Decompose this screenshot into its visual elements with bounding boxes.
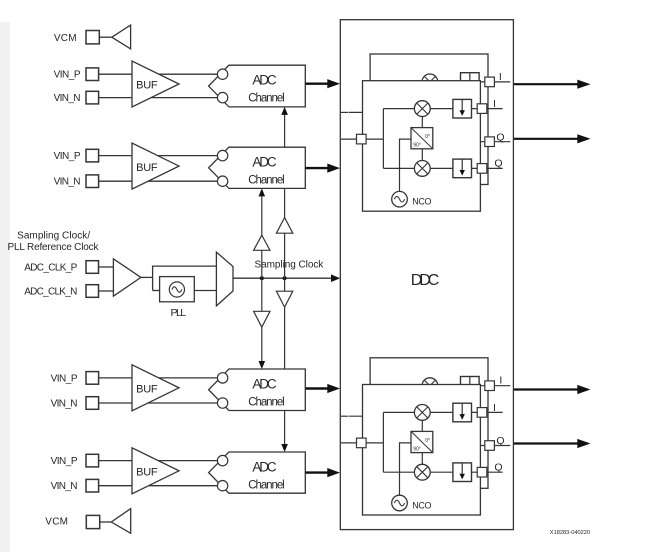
VCM buffer bottom xyxy=(111,509,130,534)
wire split to PLL xyxy=(153,290,160,292)
faint page-edge band xyxy=(0,22,10,552)
svg-text:BUF: BUF xyxy=(136,467,158,479)
wire PLL to mux xyxy=(194,290,216,292)
port VIN_N ch4 xyxy=(86,479,99,492)
svg-text:I: I xyxy=(493,98,496,110)
wire VIN_P ch3 xyxy=(99,377,223,379)
svg-text:VIN_P: VIN_P xyxy=(51,373,78,384)
wire clock down to ADC4 xyxy=(284,278,286,446)
wire PLL bypass path xyxy=(153,266,217,290)
ADC1 input bubble P xyxy=(217,69,227,79)
port ADC_CLK_P xyxy=(86,261,99,274)
clock input buffer xyxy=(113,259,140,296)
DDC enclosure box xyxy=(340,20,513,530)
arrow DDC I2 output xyxy=(514,385,591,394)
ADC1 input bubble N xyxy=(217,92,227,102)
svg-text:Q: Q xyxy=(496,435,504,447)
mux clock select xyxy=(216,252,233,306)
port VIN_P ch2 xyxy=(86,149,99,162)
svg-text:Channel: Channel xyxy=(248,396,284,408)
svg-text:VIN_P: VIN_P xyxy=(54,151,81,162)
wire VCM bottom xyxy=(100,521,112,523)
PLL block xyxy=(160,277,195,302)
ADC3 input bubble N xyxy=(217,398,227,408)
arrowhead clock into ADC4 xyxy=(281,444,288,452)
buffer BUF4 xyxy=(132,448,179,494)
svg-text:VIN_N: VIN_N xyxy=(51,399,78,410)
wire ADC_CLK_P xyxy=(99,266,114,268)
ADC channel 1 block xyxy=(209,65,306,107)
svg-text:ADC: ADC xyxy=(252,459,276,474)
port ADC_CLK_N xyxy=(86,285,99,298)
ADC channel 3 block xyxy=(209,369,306,411)
svg-text:VIN_N: VIN_N xyxy=(54,177,81,188)
wire stub to back channel 2 input xyxy=(341,415,348,417)
clock buffer down A xyxy=(254,311,270,327)
DDC sub-channel 1 back xyxy=(349,54,511,185)
DDC sub-channel 2 front xyxy=(341,385,503,516)
svg-text:VIN_N: VIN_N xyxy=(51,481,78,492)
wire VIN_N ch2 xyxy=(99,180,223,182)
svg-text:Sampling Clock/: Sampling Clock/ xyxy=(17,230,90,241)
svg-text:ADC_CLK_N: ADC_CLK_N xyxy=(24,287,77,298)
wire VIN_P ch1 xyxy=(99,73,223,75)
port VCM top xyxy=(86,31,99,44)
arrow DDC I1 output xyxy=(514,80,591,89)
buffer BUF1 xyxy=(132,61,179,107)
buffer BUF3 xyxy=(132,365,179,411)
svg-text:BUF: BUF xyxy=(136,80,158,92)
wire VIN_N ch3 xyxy=(99,402,223,404)
svg-text:Channel: Channel xyxy=(248,175,284,187)
port VIN_P ch1 xyxy=(86,68,99,81)
svg-text:PLL Reference Clock: PLL Reference Clock xyxy=(8,242,100,253)
port VIN_P ch3 xyxy=(86,372,99,385)
wire stub to back channel 1 input xyxy=(341,111,348,113)
ADC3 input bubble P xyxy=(217,373,227,383)
svg-text:Q: Q xyxy=(494,462,502,474)
wire VIN_N ch4 xyxy=(99,485,223,487)
port VIN_N ch2 xyxy=(86,175,99,188)
clock buffer up A xyxy=(254,235,270,250)
arrow ADC2 to DDC xyxy=(305,164,340,173)
arrowhead clock into ADC3 xyxy=(259,361,266,369)
svg-text:ADC: ADC xyxy=(252,376,276,391)
svg-text:VCM: VCM xyxy=(45,517,68,528)
wire clock buffer to split xyxy=(141,276,153,278)
svg-text:Q: Q xyxy=(494,158,502,170)
port VIN_N ch3 xyxy=(86,397,99,410)
arrow ADC1 to DDC xyxy=(305,79,340,88)
arrow DDC Q2 output xyxy=(514,439,591,448)
svg-text:Sampling Clock: Sampling Clock xyxy=(255,260,325,271)
port VIN_P ch4 xyxy=(86,454,99,467)
arrowhead clock into ADC1 xyxy=(281,107,288,115)
svg-text:VIN_P: VIN_P xyxy=(54,70,81,81)
wire clock down to ADC3 xyxy=(261,278,263,363)
svg-text:PLL: PLL xyxy=(171,307,187,319)
arrowhead clock into ADC2 xyxy=(259,188,266,196)
wire VIN_N ch1 xyxy=(99,97,223,99)
svg-text:VCM: VCM xyxy=(54,33,77,44)
svg-text:I: I xyxy=(499,71,502,83)
svg-text:Channel: Channel xyxy=(248,479,284,491)
wire clock up to ADC1 xyxy=(284,113,286,278)
svg-text:ADC: ADC xyxy=(252,73,276,88)
node junction A xyxy=(260,276,264,280)
arrow DDC Q1 output xyxy=(514,134,591,143)
DDC sub-channel 1 front xyxy=(341,81,503,212)
wire VIN_P ch2 xyxy=(99,155,223,157)
svg-text:BUF: BUF xyxy=(136,384,158,396)
ADC2 input bubble P xyxy=(217,150,227,160)
svg-text:I: I xyxy=(493,402,496,414)
arrow ADC3 to DDC xyxy=(305,384,340,393)
clock buffer down B xyxy=(276,291,292,307)
ADC channel 4 block xyxy=(209,452,306,493)
port VIN_N ch1 xyxy=(86,91,99,104)
arrow ADC4 to DDC xyxy=(305,468,340,477)
ADC4 input bubble P xyxy=(217,455,227,465)
svg-text:X18283-040220: X18283-040220 xyxy=(550,530,590,536)
ADC channel 2 block xyxy=(209,147,306,188)
svg-text:Q: Q xyxy=(496,131,504,143)
ADC2 input bubble N xyxy=(217,176,227,186)
svg-text:ADC: ADC xyxy=(252,155,276,170)
svg-text:VIN_P: VIN_P xyxy=(51,456,78,467)
buffer BUF2 xyxy=(132,143,179,189)
svg-text:I: I xyxy=(499,374,502,386)
wire clock up to ADC2 xyxy=(261,195,263,279)
ADC4 input bubble N xyxy=(217,481,227,491)
arrowhead clock bus into DDC xyxy=(331,274,340,282)
svg-text:DDC: DDC xyxy=(411,272,440,289)
wire VIN_P ch4 xyxy=(99,460,223,462)
wire sampling clock bus xyxy=(233,277,334,279)
DDC sub-channel 2 back xyxy=(349,358,511,489)
svg-text:VIN_N: VIN_N xyxy=(54,93,81,104)
port VCM bottom xyxy=(86,515,99,528)
clock buffer up B xyxy=(276,218,292,234)
wire VCM top xyxy=(99,36,112,38)
svg-text:BUF: BUF xyxy=(136,162,158,174)
wire ADC_CLK_N xyxy=(99,290,114,292)
svg-text:Channel: Channel xyxy=(248,93,284,105)
VCM buffer top xyxy=(112,25,131,49)
node junction B xyxy=(283,276,287,280)
svg-text:ADC_CLK_P: ADC_CLK_P xyxy=(24,263,77,274)
